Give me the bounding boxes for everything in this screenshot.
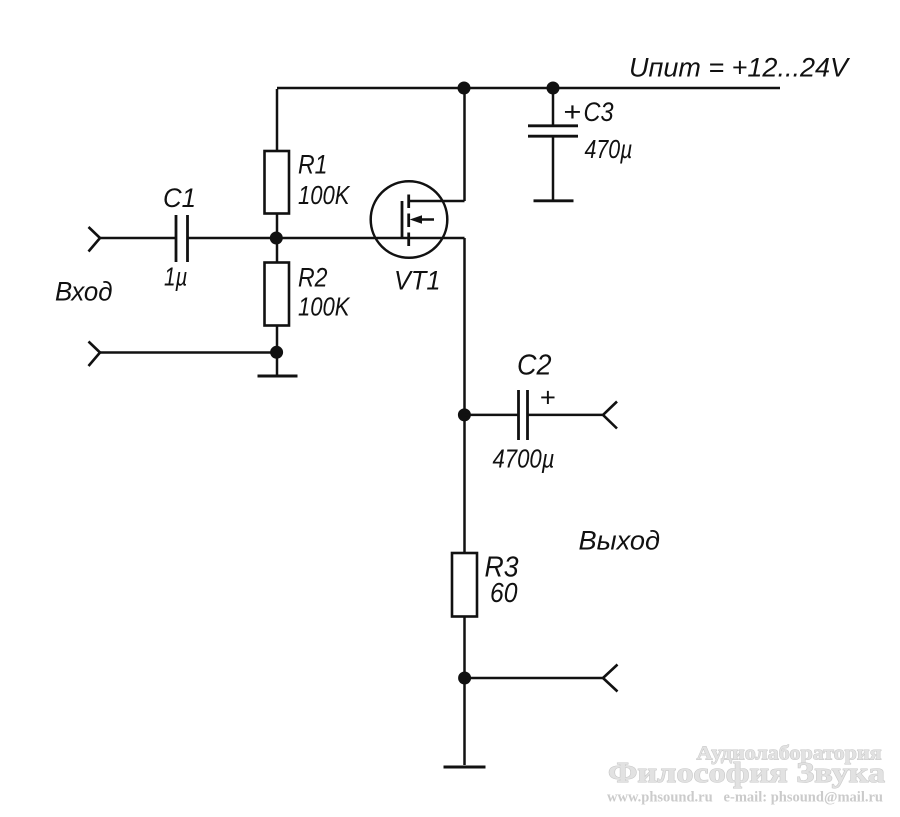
wire: C3 riser — [552, 88, 555, 126]
node: power rail drain junction — [458, 82, 471, 95]
svg-text:100K: 100K — [298, 292, 351, 322]
ground (input) — [258, 375, 298, 378]
wire: output node to ground — [463, 678, 466, 765]
svg-text:Uпит = +12...24V: Uпит = +12...24V — [629, 53, 851, 83]
svg-text:Вход: Вход — [55, 277, 113, 307]
svg-text:C3: C3 — [584, 97, 614, 127]
capacitor C3 — [528, 124, 578, 127]
wire: source down to output node — [463, 238, 466, 553]
output arrow (bottom) — [603, 665, 618, 692]
svg-text:Философия Звука: Философия Звука — [608, 758, 885, 789]
svg-text:C1: C1 — [163, 183, 196, 213]
svg-text:+: + — [540, 383, 556, 413]
svg-text:www.phsound.ru e-mail: phsou: www.phsound.ru e-mail: phsound@mail.ru — [607, 790, 883, 806]
svg-text:R1: R1 — [298, 150, 328, 180]
wire: C1 to gate and source line — [188, 237, 465, 240]
svg-text:+: + — [563, 97, 581, 127]
node: source C2 junction — [458, 408, 471, 421]
wire: R2 bottom to ground — [276, 326, 279, 376]
svg-text:100K: 100K — [298, 180, 351, 210]
wire: R3 bottom to output node — [463, 617, 466, 679]
wire: node to C2 — [465, 414, 519, 417]
node: lower input junction — [270, 346, 283, 359]
ground (C3) — [534, 199, 574, 202]
resistor R1 — [265, 151, 290, 214]
input arrow (top) — [89, 227, 101, 252]
wire: C2 to output arrow — [528, 414, 604, 417]
wire: C3 to ground — [552, 136, 555, 200]
svg-text:60: 60 — [490, 577, 518, 608]
svg-text:VT1: VT1 — [394, 266, 441, 296]
svg-text:4700µ: 4700µ — [493, 444, 555, 474]
wire: input to C1 — [100, 237, 176, 240]
svg-text:Выход: Выход — [579, 526, 661, 556]
node: power rail C3 junction — [547, 82, 560, 95]
svg-text:1µ: 1µ — [164, 262, 188, 292]
svg-text:470µ: 470µ — [585, 134, 633, 164]
ground (output) — [444, 766, 486, 769]
wire: R1 bottom to gate node — [276, 214, 279, 263]
svg-text:C2: C2 — [517, 350, 552, 382]
resistor R3 — [452, 553, 477, 617]
wire: output bottom line — [465, 677, 604, 680]
capacitor C2 — [517, 390, 520, 440]
capacitor C1 — [175, 215, 178, 262]
resistor R2 — [265, 263, 290, 326]
wire: R1 top riser — [276, 89, 279, 151]
node: output junction — [458, 672, 471, 685]
node: gate bias junction — [270, 232, 283, 245]
wire: power rail +V — [277, 87, 780, 90]
svg-text:R2: R2 — [298, 263, 328, 293]
transistor VT1 (MOSFET) — [371, 181, 465, 258]
wire: lower input to ground node — [100, 351, 277, 354]
input arrow (bottom) — [89, 342, 101, 367]
output arrow (top) — [603, 402, 617, 429]
wire: drain riser — [463, 88, 466, 201]
